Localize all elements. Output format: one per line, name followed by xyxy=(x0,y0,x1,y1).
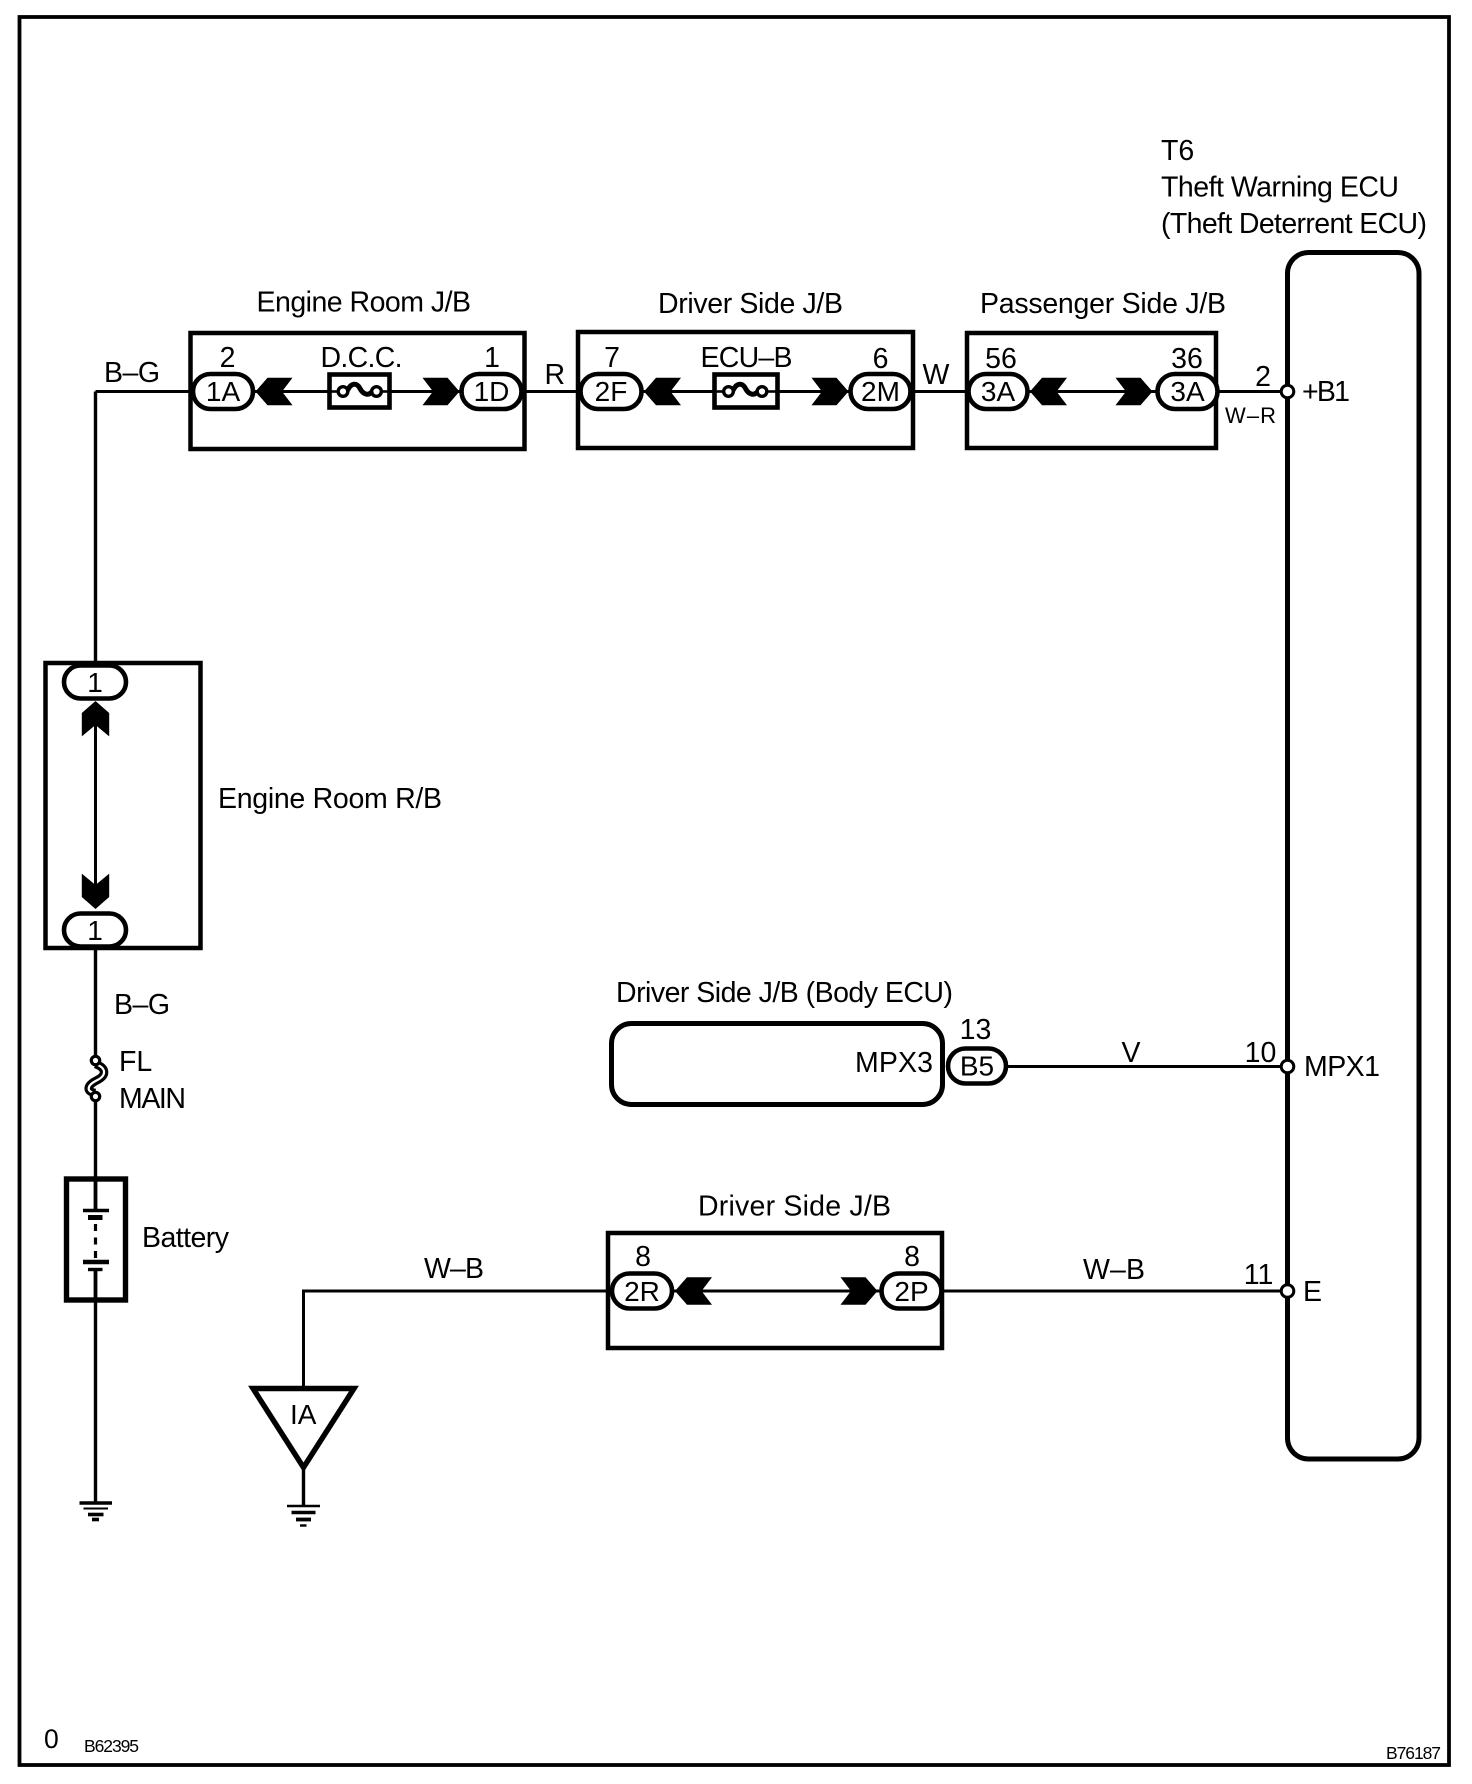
connector 2P pin 8 xyxy=(882,1274,942,1309)
svg-text:D.C.C.: D.C.C. xyxy=(321,342,403,374)
svg-text:Driver Side J/B: Driver Side J/B xyxy=(658,288,843,320)
wire FL MAIN to battery xyxy=(94,1099,97,1180)
svg-text:13: 13 xyxy=(960,1014,992,1046)
connector 1 (R/B bottom) xyxy=(64,914,126,947)
arrow down in R/B xyxy=(82,874,109,909)
svg-text:1A: 1A xyxy=(206,376,241,407)
connector 1D pin 1 xyxy=(462,374,522,409)
junction block box Driver Side J/B (top) xyxy=(578,332,913,448)
svg-text:Passenger Side J/B: Passenger Side J/B xyxy=(980,288,1226,320)
arrow left at 3A-56 xyxy=(1030,378,1067,405)
svg-text:FL: FL xyxy=(119,1046,152,1078)
svg-text:B76187: B76187 xyxy=(1386,1743,1441,1763)
wire B-G from R/B to FL MAIN xyxy=(94,947,97,1058)
svg-text:MAIN: MAIN xyxy=(119,1083,186,1115)
svg-text:2R: 2R xyxy=(624,1276,660,1307)
connector 3A pin 56 xyxy=(969,374,1028,409)
junction block box Driver Side J/B (lower) xyxy=(608,1233,942,1348)
fuse D.C.C. element xyxy=(348,384,373,394)
svg-text:B5: B5 xyxy=(960,1051,994,1082)
wire +B1 main horizontal B-G/R/W/W-R xyxy=(96,390,1282,393)
svg-text:11: 11 xyxy=(1244,1259,1274,1291)
svg-text:Theft Warning ECU: Theft Warning ECU xyxy=(1161,172,1399,204)
svg-text:2F: 2F xyxy=(595,376,628,407)
ECU terminal circle pin 11 E xyxy=(1281,1285,1294,1298)
svg-text:W: W xyxy=(923,359,950,391)
junction block box Driver Side J/B (Body ECU) MPX3 xyxy=(612,1024,943,1105)
svg-text:3A: 3A xyxy=(981,376,1016,407)
svg-text:ECU–B: ECU–B xyxy=(701,342,793,374)
arrow right at 2P xyxy=(841,1277,878,1304)
svg-text:3A: 3A xyxy=(1170,376,1205,407)
fuse ECU-B box xyxy=(715,375,778,408)
connector B5 pin 13 xyxy=(948,1049,1006,1084)
svg-text:1D: 1D xyxy=(474,376,510,407)
svg-text:B62395: B62395 xyxy=(84,1736,139,1756)
connector 3A pin 36 xyxy=(1158,374,1218,409)
svg-text:2M: 2M xyxy=(861,376,900,407)
svg-text:2: 2 xyxy=(220,342,236,374)
battery internals xyxy=(94,1181,98,1210)
svg-text:MPX3: MPX3 xyxy=(855,1047,933,1079)
svg-text:+B1: +B1 xyxy=(1302,376,1350,408)
junction block box Engine Room R/B xyxy=(46,663,201,948)
arrow left at 2F xyxy=(644,378,681,405)
svg-text:MPX1: MPX1 xyxy=(1304,1051,1380,1083)
svg-text:6: 6 xyxy=(873,343,889,375)
wire inside Engine Room R/B xyxy=(94,724,97,886)
svg-text:Driver Side J/B (Body ECU): Driver Side J/B (Body ECU) xyxy=(616,977,953,1009)
arrow right at 3A-36 xyxy=(1116,378,1153,405)
ground (IA) xyxy=(287,1505,320,1507)
svg-text:Engine Room R/B: Engine Room R/B xyxy=(218,783,442,815)
connector 1 (R/B top) xyxy=(64,666,126,699)
svg-text:T6: T6 xyxy=(1161,135,1194,167)
wire W-B from IA to Driver Side J/B 2R xyxy=(304,1291,613,1386)
fuse ECU-B element xyxy=(733,384,758,394)
svg-text:(Theft Deterrent ECU): (Theft Deterrent ECU) xyxy=(1161,208,1427,240)
wire IA triangle to ground xyxy=(302,1466,305,1506)
svg-text:Battery: Battery xyxy=(142,1222,230,1254)
wire battery to ground xyxy=(94,1295,97,1503)
fuse D.C.C. box xyxy=(330,375,390,408)
svg-text:V: V xyxy=(1122,1037,1141,1069)
wire W-B through Driver Side J/B to ECU pin 11 E xyxy=(612,1290,1281,1293)
svg-text:IA: IA xyxy=(290,1399,317,1430)
svg-text:8: 8 xyxy=(635,1241,651,1273)
svg-text:R: R xyxy=(545,359,566,391)
svg-text:10: 10 xyxy=(1245,1037,1277,1069)
svg-text:B–G: B–G xyxy=(104,357,160,389)
fuse D.C.C. internal wire stubs xyxy=(330,390,340,393)
svg-text:W–R: W–R xyxy=(1225,403,1276,428)
arrow left at 1A xyxy=(256,378,293,405)
junction block box Engine Room J/B xyxy=(191,333,525,449)
svg-text:1: 1 xyxy=(87,667,103,698)
ground connector IA triangle xyxy=(253,1389,354,1468)
svg-text:56: 56 xyxy=(985,343,1017,375)
ECU U-T6 body (Theft Warning ECU outline) xyxy=(1288,253,1420,1460)
svg-text:0: 0 xyxy=(44,1724,59,1754)
fuse ECU-B internal wire stubs xyxy=(715,390,726,393)
connector 1A pin 2 xyxy=(193,374,253,409)
svg-text:B–G: B–G xyxy=(114,989,170,1021)
svg-text:Driver Side J/B: Driver Side J/B xyxy=(698,1191,891,1223)
svg-text:E: E xyxy=(1303,1276,1322,1308)
svg-text:8: 8 xyxy=(904,1241,920,1273)
svg-text:1: 1 xyxy=(484,342,500,374)
svg-text:Engine Room J/B: Engine Room J/B xyxy=(257,287,472,319)
arrow up in R/B xyxy=(82,701,109,736)
ECU terminal circle pin 2 +B1 xyxy=(1281,385,1294,398)
battery box xyxy=(67,1179,126,1300)
wire left vertical B-G down to Engine Room R/B xyxy=(94,392,97,666)
connector 2R pin 8 xyxy=(612,1274,672,1309)
svg-text:7: 7 xyxy=(604,342,620,374)
ground (battery) xyxy=(80,1501,113,1505)
svg-text:2P: 2P xyxy=(894,1276,928,1307)
svg-text:W–B: W–B xyxy=(424,1253,484,1285)
connector 2M pin 6 xyxy=(851,374,911,409)
svg-text:36: 36 xyxy=(1171,343,1203,375)
arrow right at 1D xyxy=(423,378,460,405)
wire V from B5 to ECU pin 10 MPX1 xyxy=(1006,1065,1281,1068)
ECU terminal circle pin 10 MPX1 xyxy=(1281,1060,1294,1073)
fusible link FL MAIN xyxy=(89,1064,104,1093)
svg-text:1: 1 xyxy=(87,915,103,946)
arrow right at 2M xyxy=(812,378,849,405)
svg-text:2: 2 xyxy=(1255,361,1271,393)
svg-text:W–B: W–B xyxy=(1083,1254,1145,1286)
connector 2F pin 7 xyxy=(581,374,642,409)
junction block box Passenger Side J/B xyxy=(967,333,1216,448)
arrow left at 2R xyxy=(675,1277,712,1304)
